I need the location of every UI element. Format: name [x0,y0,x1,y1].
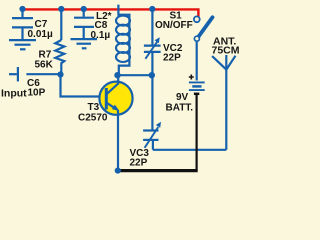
ground (below C7) [9,40,36,49]
ground (below C8) [71,39,98,48]
capacitor C7 [12,9,33,39]
svg-text:10P: 10P [28,88,46,99]
wire collector rail [118,74,152,76]
node C8 top junction [81,6,87,12]
node R7/C6/base junction [57,71,63,77]
node L2/collector junction [114,72,120,78]
node VC2/VC3 junction [149,72,155,78]
capacitor C6 [9,67,61,81]
transistor T3 [99,75,132,115]
antenna ANT. 75CM [212,55,235,150]
svg-text:Input: Input [1,87,27,99]
node emitter/ground junction [115,168,121,174]
variable capacitor VC2 [144,9,161,75]
svg-text:22P: 22P [130,158,148,169]
wire VC2/VC3 junction to VC3 [151,75,153,130]
svg-text:BATT.: BATT. [166,102,194,113]
svg-text:ON/OFF: ON/OFF [155,20,193,31]
resistor R7 [55,9,64,75]
switch S1 [194,16,213,80]
node R7 top junction [58,6,64,12]
svg-text:56K: 56K [35,60,54,71]
wire emitter [117,110,119,171]
node C7 top junction [19,6,25,12]
variable capacitor VC3 [143,122,161,150]
svg-text:22P: 22P [163,52,181,63]
wire VC3 to antenna [153,149,226,151]
svg-text:0.01µ: 0.01µ [28,29,53,40]
svg-text:C2570: C2570 [78,112,108,123]
wire VCC rail (red) [23,9,199,17]
capacitor C8 [74,9,94,38]
wire base [61,75,106,97]
wire ground rail (black) [118,169,198,172]
battery BATT. 9V [189,75,205,170]
inductor L2 [116,5,130,73]
svg-text:75CM: 75CM [212,45,240,57]
node VC2 top junction [149,6,155,12]
svg-text:L2*: L2* [96,11,112,22]
